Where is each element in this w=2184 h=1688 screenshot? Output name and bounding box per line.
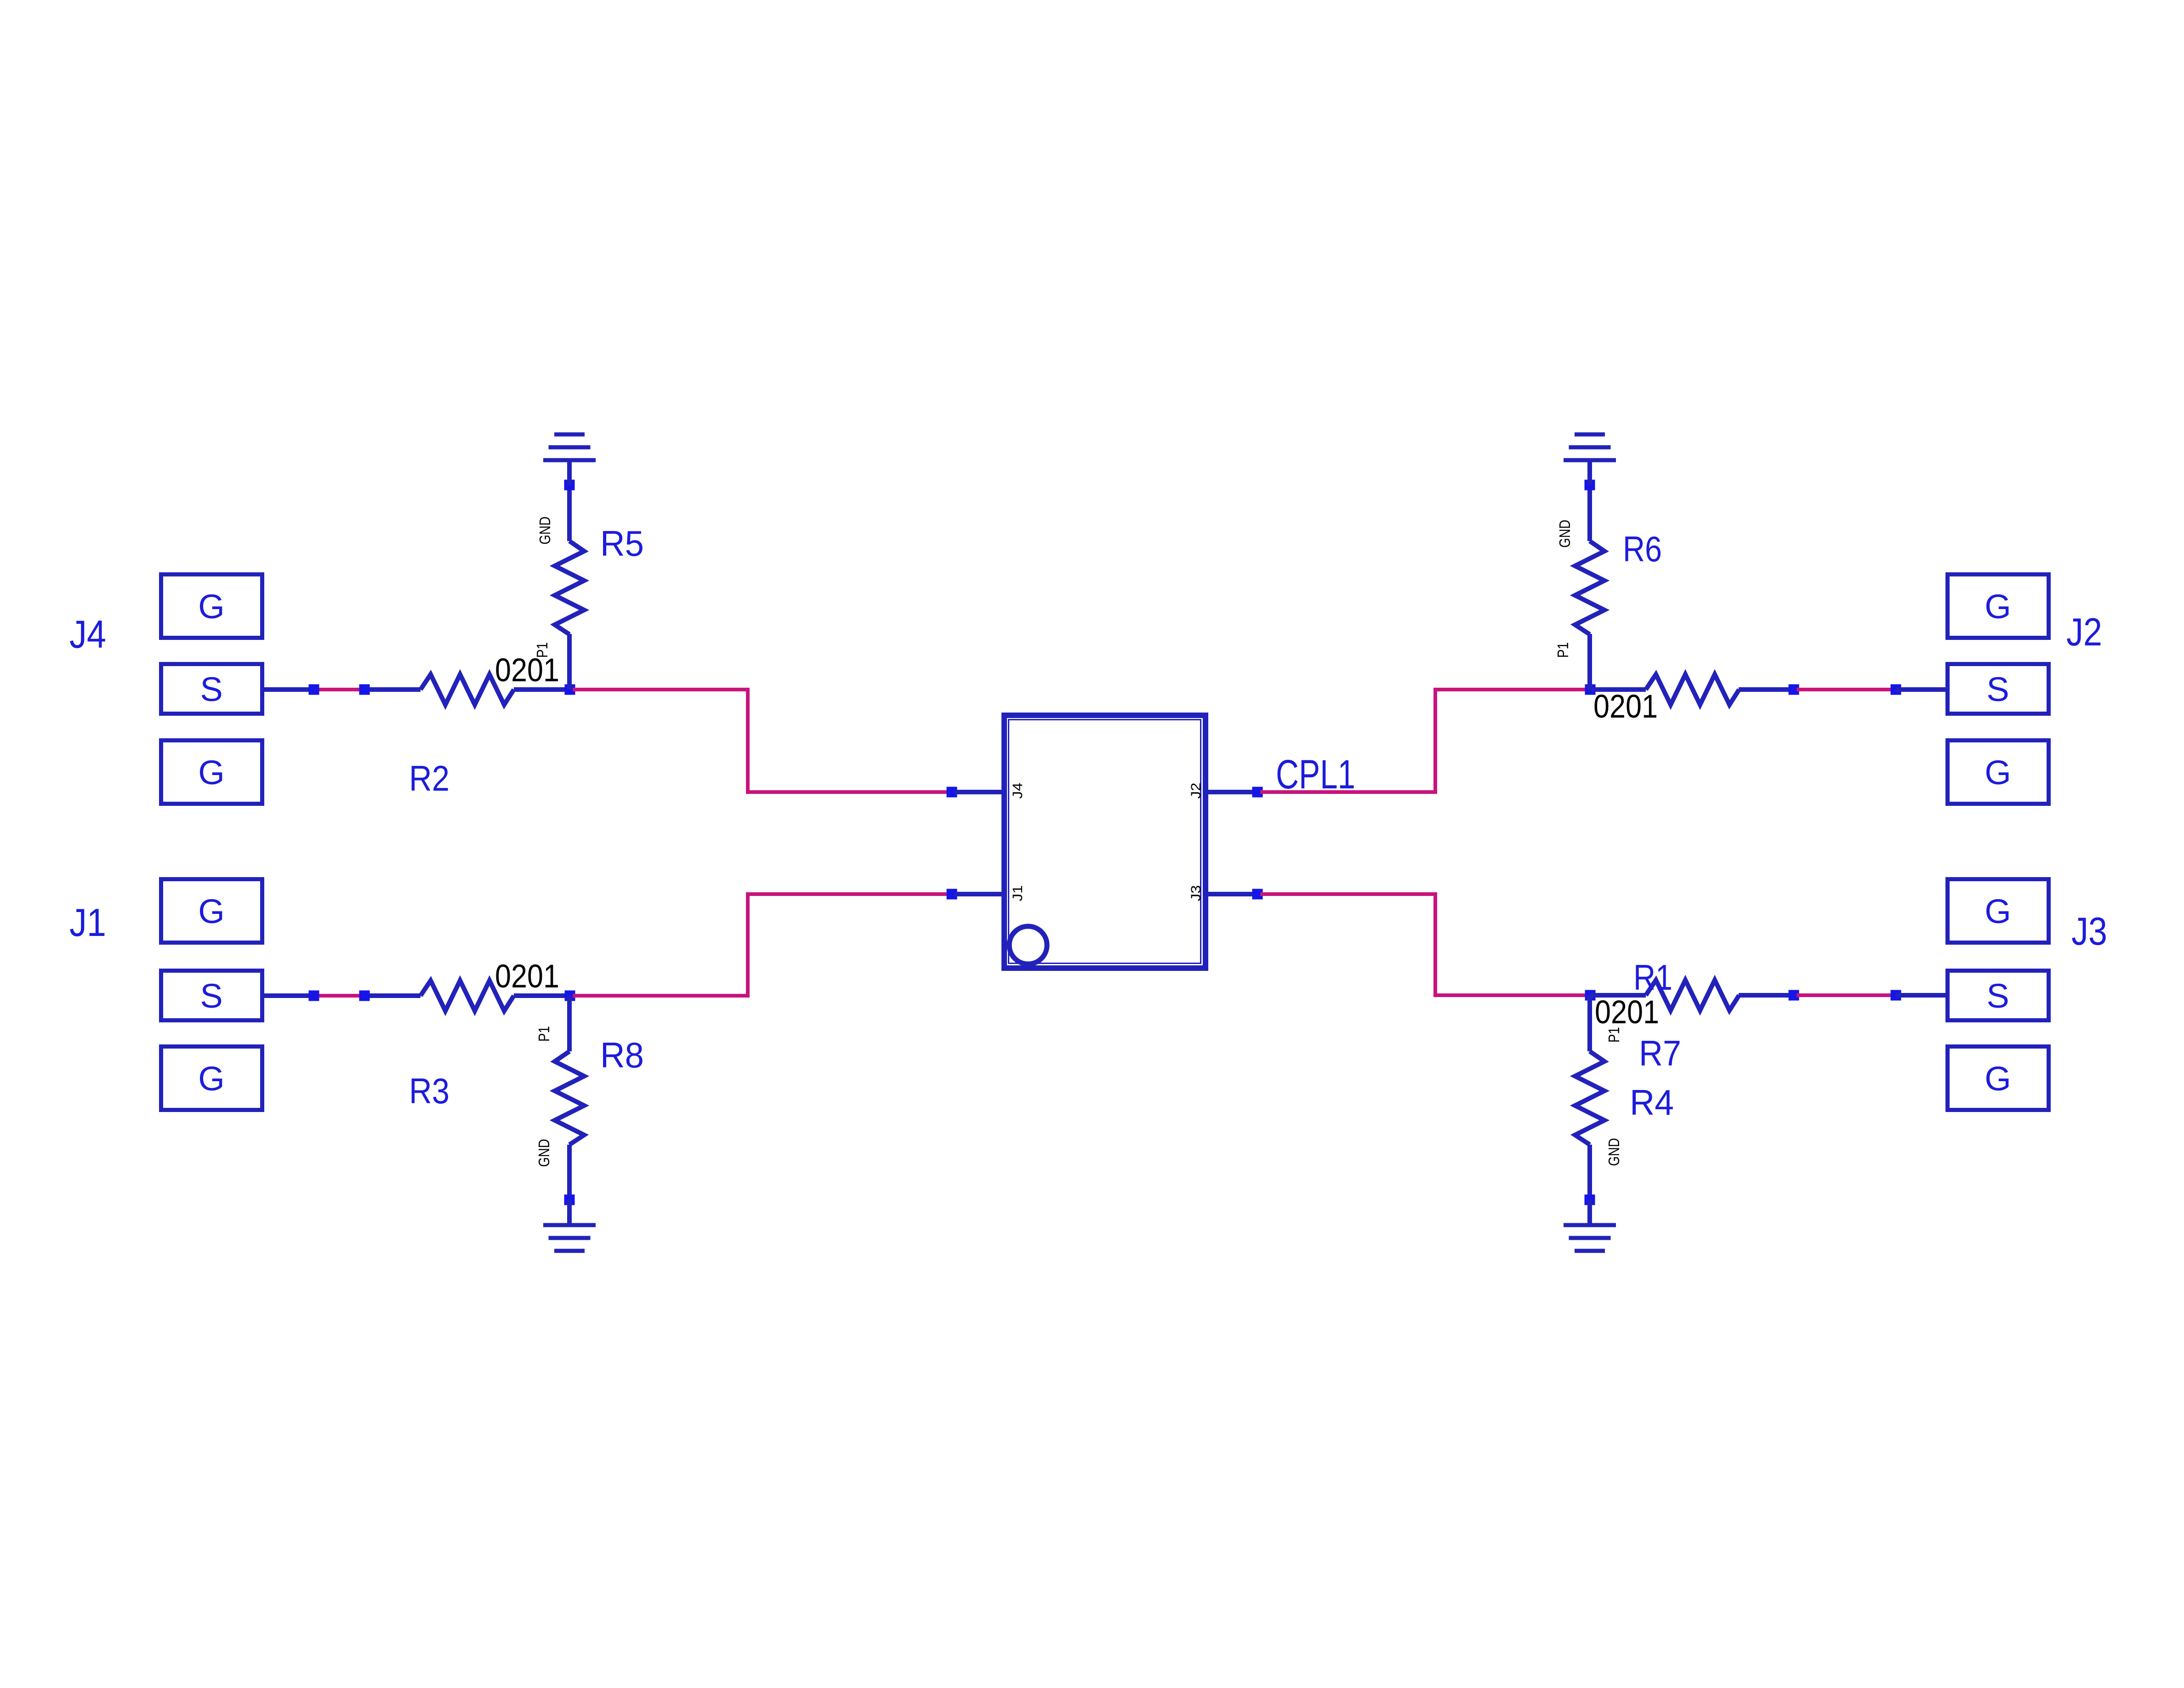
junction (359, 991, 370, 1001)
svg-text:R4: R4 (1630, 1082, 1674, 1123)
svg-text:G: G (1985, 753, 2011, 792)
svg-text:S: S (200, 670, 222, 708)
resistor R4 upper lead (1587, 995, 1592, 1051)
svg-text:S: S (1986, 977, 2009, 1015)
junction (1891, 684, 1901, 695)
svg-text:GND: GND (536, 517, 553, 545)
wire R4 to ground (1587, 1145, 1592, 1200)
svg-text:G: G (198, 1060, 225, 1098)
svg-text:R1: R1 (1633, 957, 1672, 998)
connector J2 pad G (top) (1948, 575, 2049, 638)
connector J1 pad S (161, 971, 262, 1021)
connector J4 pad S (161, 664, 262, 714)
svg-text:J1: J1 (1010, 885, 1025, 901)
connector J2 pad G (bottom) (1948, 741, 2049, 804)
junction (309, 684, 319, 695)
wire node to coupler J4 (pink) (573, 690, 950, 792)
connector J3 pad S (1948, 971, 2049, 1021)
svg-text:P1: P1 (535, 1026, 552, 1042)
connector J2 pad S (1948, 664, 2049, 714)
svg-text:J3: J3 (2071, 910, 2107, 953)
series resistor (0201) top right (1646, 674, 1739, 705)
node R4 junction (1585, 990, 1596, 1001)
wire R3 to node (514, 993, 570, 998)
resistor R3 (421, 981, 514, 1011)
svg-text:GND: GND (1605, 1138, 1622, 1166)
wire net segment (pink) (311, 994, 366, 998)
wire coupler J3 pin stub (1206, 892, 1255, 896)
wire coupler J2 to node (pink) (1260, 690, 1589, 792)
svg-text:GND: GND (1556, 520, 1573, 548)
junction (1789, 990, 1799, 1001)
wire node to series resistor R1 (1590, 993, 1646, 998)
wire net segment (pink) (1797, 688, 1893, 691)
wire to ground symbol (1587, 460, 1592, 485)
node R6 junction (1585, 684, 1596, 695)
junction (1789, 684, 1799, 695)
junction at ground (1585, 480, 1595, 490)
junction at ground (564, 1195, 575, 1205)
resistor R1 (1646, 980, 1739, 1010)
junction (359, 684, 370, 695)
wire to ground symbol (567, 1200, 572, 1225)
junction at coupler J4 pin (947, 787, 957, 798)
node R2/R5 junction (565, 684, 575, 695)
svg-text:0201: 0201 (1593, 689, 1658, 725)
wire coupler J1 pin stub (955, 892, 1004, 896)
wire to J2.S (1896, 687, 1945, 692)
junction at coupler J1 pin (947, 889, 957, 900)
svg-text:G: G (1985, 1060, 2011, 1098)
connector J1 pad G (bottom) (161, 1047, 262, 1110)
wire to J3.S (1896, 993, 1945, 998)
junction at coupler J3 pin (1252, 889, 1263, 900)
wire resistor to junction (1739, 687, 1794, 692)
resistor R6 lower lead (1587, 634, 1592, 690)
wire coupler J3 to node (pink) (1260, 894, 1589, 995)
svg-text:R8: R8 (600, 1035, 644, 1075)
wire resistor to junction (1739, 993, 1794, 998)
connector J4 pad G (top) (161, 575, 262, 638)
svg-text:R6: R6 (1623, 529, 1662, 569)
wire R2 to node (514, 687, 570, 692)
wire to resistor R3 (366, 993, 421, 998)
ground (543, 458, 596, 462)
svg-text:G: G (198, 587, 225, 626)
wire R8 to ground (567, 1145, 572, 1200)
svg-text:J4: J4 (69, 613, 106, 656)
resistor R5 (555, 541, 584, 634)
svg-text:G: G (198, 892, 225, 930)
connector J3 pad G (bottom) (1948, 1047, 2049, 1110)
resistor R2 (421, 674, 514, 705)
svg-text:R3: R3 (409, 1071, 449, 1111)
wire J1.S to net (264, 993, 311, 998)
svg-text:R2: R2 (409, 758, 449, 798)
connector J1 pad G (top) (161, 879, 262, 943)
wire to ground symbol (1587, 1200, 1592, 1225)
svg-text:R5: R5 (600, 523, 644, 564)
resistor R8 upper lead (567, 996, 572, 1051)
svg-text:J3: J3 (1189, 885, 1204, 901)
ground (543, 1223, 596, 1227)
wire node to coupler J1 (pink) (573, 894, 950, 996)
svg-text:P1: P1 (1554, 642, 1571, 658)
svg-text:GND: GND (535, 1139, 552, 1167)
svg-text:J4: J4 (1010, 783, 1025, 799)
wire net segment (pink) (311, 688, 366, 691)
svg-text:0201: 0201 (495, 958, 559, 995)
svg-text:J1: J1 (69, 901, 106, 945)
ground (1564, 458, 1616, 462)
wire net segment (pink) (1797, 993, 1893, 997)
node R3/R8 junction (565, 991, 575, 1001)
junction at coupler J2 pin (1252, 787, 1263, 798)
junction at ground (1585, 1195, 1595, 1205)
wire R6 to ground (1587, 485, 1592, 541)
wire R5 to ground (567, 485, 572, 541)
coupler CPL1 body (1004, 715, 1206, 968)
junction (309, 991, 319, 1001)
wire to ground symbol (567, 460, 572, 485)
connector J3 pad G (top) (1948, 879, 2049, 943)
svg-text:J2: J2 (2066, 610, 2102, 654)
coupler CPL1 pin-1 indicator circle (1009, 926, 1047, 964)
wire node to series resistor (1590, 687, 1646, 692)
resistor R5 lower lead (567, 634, 572, 690)
svg-text:G: G (1985, 587, 2011, 626)
resistor R6 (1575, 541, 1604, 634)
junction at ground (564, 480, 575, 490)
resistor R8 (555, 1051, 584, 1145)
svg-text:0201: 0201 (1595, 994, 1659, 1031)
resistor R4 (1575, 1051, 1604, 1145)
wire coupler J4 pin stub (955, 790, 1004, 794)
svg-text:S: S (200, 977, 222, 1015)
svg-text:G: G (1985, 892, 2011, 930)
ground (1564, 1223, 1616, 1227)
wire to resistor R2 (366, 687, 421, 692)
svg-text:R7: R7 (1639, 1033, 1681, 1073)
svg-text:G: G (198, 753, 225, 792)
svg-text:P1: P1 (534, 642, 551, 658)
svg-text:S: S (1986, 670, 2009, 708)
wire coupler J2 pin stub (1206, 790, 1255, 794)
wire J4.S to net (264, 687, 311, 692)
junction (1891, 990, 1901, 1001)
connector J4 pad G (bottom) (161, 741, 262, 804)
svg-text:J2: J2 (1189, 783, 1204, 799)
